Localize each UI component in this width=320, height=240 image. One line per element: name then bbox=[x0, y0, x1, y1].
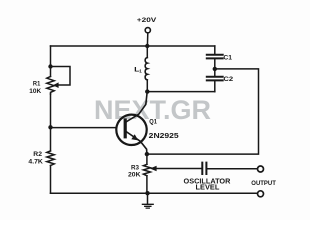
junction node: base bbox=[48, 125, 52, 129]
junction node: R1 top bbox=[48, 64, 52, 68]
ground stub bbox=[147, 193, 149, 203]
capacitor coupling (oscillator level) plates bbox=[202, 163, 206, 174]
resistor R1 (pot) zigzag bbox=[47, 77, 54, 95]
wire: left vertical lower bbox=[50, 166, 52, 194]
wire: bottom rail bbox=[51, 192, 258, 194]
svg-text:Q1: Q1 bbox=[149, 119, 157, 126]
svg-text:4.7K: 4.7K bbox=[28, 159, 43, 166]
svg-text:C2: C2 bbox=[223, 76, 233, 83]
resistor R2 zigzag bbox=[47, 151, 54, 166]
wire: tank bottom bbox=[147, 91, 215, 93]
transistor Q1 emitter arrowhead bbox=[131, 134, 138, 140]
svg-text:2N2925: 2N2925 bbox=[149, 131, 179, 140]
junction node: tank bottom / collector bbox=[145, 89, 149, 93]
terminal: output bottom bbox=[258, 191, 264, 197]
terminal: output top bbox=[258, 166, 264, 172]
wire: feedback tap C1/C2 to emitter node bbox=[147, 69, 259, 154]
ground bars bbox=[142, 204, 153, 208]
wire: right cap branch bbox=[214, 46, 216, 92]
wire: left vertical middle bbox=[50, 94, 52, 151]
inductor L1 coil bbox=[145, 58, 147, 80]
wire: R3 vertical leads bbox=[146, 154, 148, 193]
transistor Q1 collector lead bbox=[127, 92, 148, 122]
junction node: C1/C2 midpoint bbox=[213, 67, 217, 71]
inductor L1 leads bbox=[146, 46, 148, 92]
svg-text:20K: 20K bbox=[128, 172, 141, 179]
wire: R3 wiper to coupling cap bbox=[156, 168, 202, 170]
R3 wiper arrowhead bbox=[150, 166, 157, 172]
svg-text:LEVEL: LEVEL bbox=[196, 185, 221, 192]
junction node: emitter / R3 top bbox=[145, 152, 149, 156]
svg-text:1: 1 bbox=[139, 68, 142, 73]
capacitor C1 plates bbox=[207, 55, 223, 59]
svg-text:10K: 10K bbox=[29, 88, 41, 95]
transistor Q1 emitter lead bbox=[127, 132, 147, 154]
wire: top rail bbox=[51, 45, 215, 47]
svg-text:+20V: +20V bbox=[137, 17, 157, 24]
wire: +20V stub bbox=[146, 33, 148, 46]
junction node: top rail / L1 bbox=[145, 44, 149, 48]
svg-text:C1: C1 bbox=[223, 54, 232, 61]
R1 wiper arrowhead bbox=[53, 82, 59, 88]
svg-text:R2: R2 bbox=[33, 151, 42, 158]
svg-text:OUTPUT: OUTPUT bbox=[251, 180, 276, 187]
capacitor C2 plates bbox=[207, 77, 223, 81]
wire: cap to output terminal bbox=[207, 168, 258, 170]
wire: left vertical upper bbox=[50, 46, 52, 77]
junction node: bottom rail / ground bbox=[145, 191, 149, 195]
resistor R3 zigzag bbox=[143, 164, 150, 175]
svg-text:R1: R1 bbox=[33, 81, 41, 88]
transistor Q1 base bar bbox=[124, 118, 127, 138]
terminal: +20V bbox=[145, 28, 150, 33]
wire: base wire bbox=[51, 127, 117, 129]
transistor Q1 circle bbox=[116, 115, 146, 145]
wire: R1 wiper feedback loop bbox=[51, 67, 71, 86]
